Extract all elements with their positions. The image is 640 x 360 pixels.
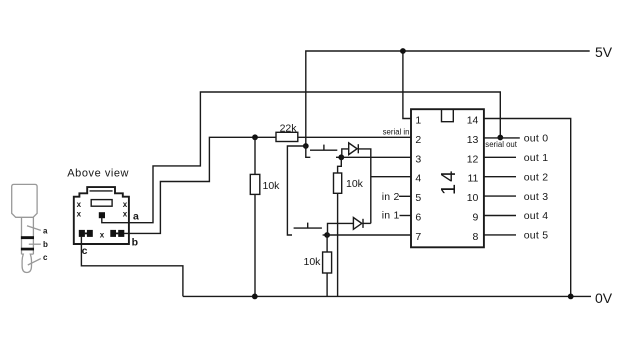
svg-text:x: x	[77, 200, 82, 209]
svg-text:x: x	[77, 210, 82, 219]
svg-text:in 1: in 1	[382, 210, 400, 222]
junction node sw1/diode1/pin3	[338, 154, 344, 160]
wire: node up to diode 2 anode	[328, 223, 354, 235]
junction 10k-left / 0V	[252, 294, 258, 300]
svg-text:x: x	[100, 231, 105, 240]
socket pad pair left (c contact)	[79, 230, 85, 237]
wire: branch to switch 2	[287, 146, 305, 235]
svg-text:serial in: serial in	[383, 128, 410, 137]
svg-text:10: 10	[467, 192, 479, 204]
svg-text:out 5: out 5	[524, 230, 549, 242]
svg-text:22k: 22k	[280, 122, 298, 134]
svg-text:serial out: serial out	[485, 140, 517, 149]
svg-text:11: 11	[467, 173, 478, 185]
wire: in 1 stub	[400, 215, 412, 217]
svg-text:5: 5	[415, 192, 421, 204]
svg-text:b: b	[132, 236, 138, 248]
svg-text:out 1: out 1	[524, 152, 549, 164]
jack plug tip (contact c)	[22, 254, 34, 272]
wire: socket a pin to serial-out run	[102, 92, 501, 223]
svg-text:a: a	[43, 226, 48, 235]
svg-text:12: 12	[467, 153, 479, 165]
wire: node jog down to 10k middle	[338, 157, 342, 173]
wire: 5V to pin 1	[403, 51, 411, 119]
wire: pin 13 to out 0	[484, 137, 520, 139]
wire: diode 1 cathode right and down	[358, 149, 371, 224]
svg-text:out 3: out 3	[524, 191, 549, 203]
svg-text:0V: 0V	[595, 290, 613, 306]
socket inner rectangle	[91, 200, 112, 207]
socket pad pair right (b contact)	[110, 230, 116, 237]
svg-text:10k: 10k	[304, 256, 322, 268]
jack plug insulator band 1	[21, 236, 34, 239]
svg-text:13: 13	[467, 134, 479, 146]
leader line c (plug)	[28, 259, 41, 265]
socket tab inner line	[90, 190, 113, 192]
socket outline (above view)	[74, 187, 129, 244]
svg-text:7: 7	[415, 231, 421, 243]
svg-text:14: 14	[467, 115, 479, 127]
svg-text:4: 4	[415, 173, 421, 185]
svg-text:out 2: out 2	[524, 171, 549, 183]
svg-text:out 4: out 4	[524, 210, 549, 222]
push switch SW1	[306, 145, 342, 158]
resistor 10k left	[254, 137, 256, 174]
wire: in 2 stub	[399, 195, 411, 197]
svg-text:3: 3	[415, 153, 421, 165]
wire: diode 2 cathode to vertical	[363, 222, 371, 224]
svg-text:10k: 10k	[346, 178, 364, 190]
svg-text:Above view: Above view	[67, 168, 129, 180]
push switch SW2	[294, 223, 328, 235]
resistor 22k	[276, 132, 298, 141]
diode D1	[349, 143, 359, 155]
svg-text:a: a	[133, 210, 139, 222]
svg-text:out 0: out 0	[524, 133, 549, 145]
jack plug body	[12, 184, 37, 217]
IC body	[411, 109, 484, 247]
svg-text:x: x	[123, 200, 128, 209]
junction serial-in node	[252, 134, 258, 140]
IC notch	[442, 109, 454, 122]
svg-text:5V: 5V	[595, 44, 613, 60]
wire: node to pin 3	[341, 156, 411, 158]
wire: pin 14 to 0V rail	[484, 119, 571, 297]
wire: node up to diode 1 anode	[342, 149, 349, 157]
resistor 10k bottom	[326, 235, 328, 252]
0V rail	[183, 295, 591, 297]
svg-text:6: 6	[415, 212, 421, 224]
svg-text:14: 14	[438, 169, 460, 195]
svg-text:x: x	[123, 210, 128, 219]
svg-text:8: 8	[473, 231, 479, 243]
junction 0V rail right	[568, 294, 574, 300]
leader line a (plug)	[27, 226, 41, 231]
svg-text:c: c	[82, 245, 88, 257]
socket centre pin (a contact)	[99, 212, 105, 218]
wire: to pin 4	[371, 176, 411, 178]
wire: socket c pads to 0V rail	[81, 236, 182, 296]
svg-text:10k: 10k	[263, 180, 281, 192]
junction node sw2/diode2/pin7	[324, 232, 330, 238]
jack plug insulator band 2	[21, 248, 34, 251]
svg-text:2: 2	[415, 134, 421, 146]
wire: node to pin 7	[327, 234, 411, 236]
svg-text:1: 1	[415, 115, 421, 127]
out stub wires	[484, 156, 516, 158]
svg-text:9: 9	[473, 212, 479, 224]
junction 5V/pin1	[400, 48, 406, 54]
wire: 22k to pin 2 (serial in)	[298, 136, 411, 138]
resistor 10k middle	[334, 173, 342, 193]
diode D2	[353, 218, 363, 230]
svg-text:b: b	[43, 240, 48, 249]
5V rail	[306, 51, 590, 146]
junction node switch1 top	[303, 143, 309, 149]
svg-text:in 2: in 2	[382, 191, 400, 203]
jack plug shaft (contact a)	[22, 217, 34, 254]
wire: socket b pads to serial-in run	[124, 137, 276, 233]
leader line b (plug)	[29, 243, 41, 245]
junction serial out node	[497, 135, 503, 141]
svg-text:c: c	[43, 253, 48, 262]
